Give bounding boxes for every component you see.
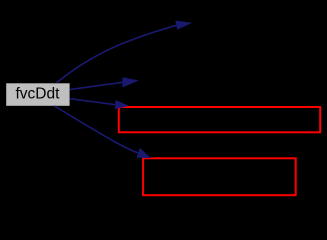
edge 1 curve bbox=[57, 25, 177, 83]
svg-text:fvcDdt: fvcDdt bbox=[16, 85, 61, 102]
edge 2 arrowhead bbox=[122, 77, 139, 87]
edge 4 arrowhead bbox=[137, 148, 151, 158]
node fvcDdt grey box bbox=[6, 83, 69, 106]
edge 4 curve bbox=[55, 106, 139, 153]
edge 1 arrowhead bbox=[175, 21, 192, 30]
node lower red box (truncated node) bbox=[143, 158, 296, 195]
edge 2 line bbox=[70, 82, 123, 89]
edge 3 line bbox=[70, 99, 115, 105]
edge 3 arrowhead bbox=[115, 100, 129, 109]
node upper red box (truncated node) bbox=[119, 107, 320, 132]
